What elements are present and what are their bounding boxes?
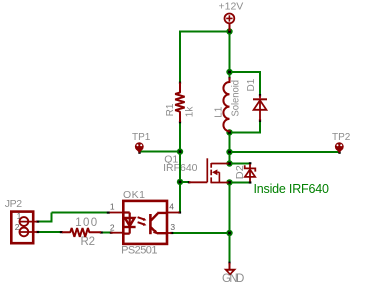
svg-text:1: 1 <box>110 201 115 211</box>
svg-text:100: 100 <box>75 217 98 229</box>
svg-text:PS2501: PS2501 <box>121 244 157 256</box>
svg-text:2: 2 <box>110 222 115 232</box>
svg-text:TP2: TP2 <box>332 132 351 143</box>
svg-text:1k: 1k <box>185 106 196 118</box>
svg-text:Inside IRF640: Inside IRF640 <box>254 182 329 196</box>
svg-text:GND: GND <box>222 273 244 285</box>
svg-text:R2: R2 <box>81 236 95 248</box>
svg-text:4: 4 <box>169 202 174 212</box>
svg-text:TP1: TP1 <box>132 132 151 143</box>
svg-text:OK1: OK1 <box>123 189 146 201</box>
svg-text:JP2: JP2 <box>5 198 22 210</box>
svg-text:R1: R1 <box>165 103 176 116</box>
svg-text:3: 3 <box>170 222 175 232</box>
svg-text:Solenoid: Solenoid <box>231 80 242 117</box>
svg-text:+12V: +12V <box>219 1 244 13</box>
svg-text:D1: D1 <box>246 78 257 91</box>
